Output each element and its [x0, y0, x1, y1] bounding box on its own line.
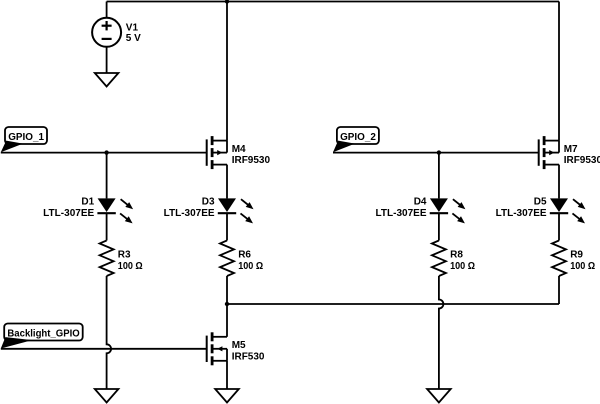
- svg-text:V1: V1: [126, 22, 139, 33]
- svg-text:LTL-307EE: LTL-307EE: [43, 208, 94, 219]
- svg-text:D1: D1: [81, 196, 94, 207]
- svg-text:D5: D5: [534, 196, 547, 207]
- svg-text:D4: D4: [414, 196, 427, 207]
- svg-text:LTL-307EE: LTL-307EE: [376, 208, 427, 219]
- svg-text:Backlight_GPIO: Backlight_GPIO: [7, 329, 80, 340]
- svg-text:D3: D3: [202, 196, 215, 207]
- svg-text:IRF9530: IRF9530: [564, 155, 600, 166]
- svg-text:R9: R9: [570, 250, 583, 261]
- svg-text:GPIO_2: GPIO_2: [340, 132, 376, 143]
- svg-text:100 Ω: 100 Ω: [570, 261, 595, 272]
- svg-text:R6: R6: [238, 250, 251, 261]
- svg-text:100 Ω: 100 Ω: [118, 261, 143, 272]
- svg-text:R8: R8: [450, 250, 463, 261]
- svg-text:M4: M4: [232, 144, 246, 155]
- svg-text:100 Ω: 100 Ω: [238, 261, 263, 272]
- svg-text:R3: R3: [118, 250, 131, 261]
- svg-text:5 V: 5 V: [126, 33, 141, 44]
- svg-text:M7: M7: [564, 144, 578, 155]
- svg-text:M5: M5: [232, 340, 246, 351]
- svg-text:100 Ω: 100 Ω: [450, 261, 475, 272]
- svg-text:IRF9530: IRF9530: [232, 155, 271, 166]
- svg-text:LTL-307EE: LTL-307EE: [164, 208, 215, 219]
- svg-text:IRF530: IRF530: [232, 351, 265, 362]
- svg-text:LTL-307EE: LTL-307EE: [496, 208, 547, 219]
- svg-text:GPIO_1: GPIO_1: [8, 132, 44, 143]
